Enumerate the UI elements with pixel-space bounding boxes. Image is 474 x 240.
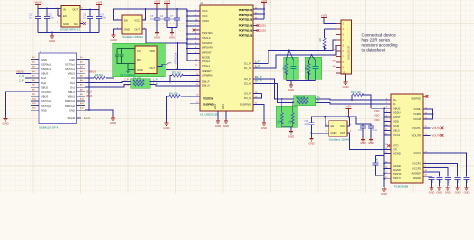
- svg-text:SH: SH: [332, 66, 335, 68]
- svg-text:/SSPND: /SSPND: [411, 97, 421, 101]
- svg-text:PCM2906B: PCM2906B: [394, 185, 408, 189]
- svg-text:VDDU: VDDU: [393, 111, 401, 115]
- wire header D minus: [312, 46, 342, 56]
- svg-text:CC: CC: [137, 49, 141, 53]
- svg-text:1k5: 1k5: [319, 37, 322, 42]
- svg-text:D3_N: D3_N: [244, 96, 251, 100]
- junction pullup D+: [351, 99, 353, 101]
- svg-text:GND: GND: [215, 124, 221, 128]
- svg-text:SSTXp1: SSTXp1: [65, 62, 76, 66]
- svg-text:GND: GND: [154, 36, 160, 40]
- resistor R12 1k5: [351, 90, 371, 108]
- svg-text:GND: GND: [2, 122, 8, 126]
- svg-text:SSTXn2: SSTXn2: [41, 99, 52, 103]
- svg-text:/RESET: /RESET: [202, 69, 212, 73]
- wire AGNDP to cap: [423, 172, 439, 177]
- svg-text:1M: 1M: [306, 67, 308, 70]
- svg-text:GND: GND: [288, 135, 294, 139]
- ground C12: [445, 186, 451, 195]
- oscillator X2: [329, 121, 351, 142]
- power flag VBUS: [34, 0, 42, 8]
- oscillator X1: [122, 15, 144, 39]
- svg-text:GND: GND: [308, 142, 314, 146]
- wire PCM left power bus: [384, 108, 391, 187]
- svg-text:VBUS: VBUS: [89, 69, 97, 73]
- resistor R8 pullup: [289, 29, 341, 50]
- wire 3V3 input rail: [38, 9, 99, 17]
- wire osc1 power loop: [114, 9, 188, 33]
- ground main IC 1: [215, 119, 221, 128]
- wire CC out right: [157, 64, 167, 66]
- svg-text:2_P: 2_P: [19, 79, 24, 83]
- wire VCONN to gnd: [6, 92, 32, 117]
- ground osc1: [110, 33, 116, 42]
- junction osc2 gnd: [311, 132, 313, 134]
- capacitor C7: [170, 9, 180, 28]
- wire VBUS left: [16, 72, 31, 74]
- svg-text:D2_N: D2_N: [244, 81, 251, 85]
- svg-text:100n: 100n: [170, 18, 176, 21]
- wire header stubs: [336, 24, 341, 74]
- no-connect pins right 2: [253, 29, 267, 33]
- svg-text:VOUTL: VOUTL: [412, 126, 421, 130]
- svg-text:R5 5k1: R5 5k1: [95, 73, 104, 77]
- wire DM_N from USB-C: [85, 85, 131, 88]
- net stub CC out: [167, 63, 171, 65]
- svg-text:GND: GND: [464, 191, 470, 195]
- wire pulldown gnd rail: [282, 127, 293, 130]
- junction XTAL1 branch: [177, 42, 179, 70]
- wire DM_P to IC: [150, 80, 201, 82]
- svg-text:VCCX: VCCX: [414, 151, 422, 155]
- ground C14: [464, 186, 470, 195]
- resistor box R1 R2 22R: [124, 76, 150, 88]
- svg-text:Earth: Earth: [84, 116, 91, 120]
- capacitor C3: [83, 14, 93, 33]
- svg-text:SCKI: SCKI: [393, 124, 400, 128]
- svg-text:OUT: OUT: [134, 27, 140, 31]
- svg-text:GND: GND: [124, 27, 130, 31]
- pin numbers USB-C left: [32, 57, 37, 110]
- wire D3 stubs: [253, 94, 262, 99]
- svg-text:D-: D-: [393, 102, 396, 106]
- capacitor C2: [44, 14, 55, 33]
- svg-text:D1_N: D1_N: [244, 66, 251, 70]
- svg-text:TESTA: TESTA: [393, 172, 402, 176]
- svg-text:VDD: VDD: [374, 118, 380, 122]
- capacitor CC 1: [115, 50, 119, 61]
- wire USB-C top gnd loop: [85, 60, 89, 111]
- no-connect pins right 1: [253, 24, 267, 28]
- ground USB-C right: [110, 116, 116, 125]
- pin numbers main IC right: [255, 7, 258, 104]
- svg-text:VCC: VCC: [134, 18, 140, 22]
- wire VCCX to cap: [423, 153, 467, 177]
- svg-text:SBU2: SBU2: [41, 85, 49, 89]
- svg-text:Shield: Shield: [68, 116, 76, 120]
- junction main bus: [186, 10, 188, 49]
- ground RREF: [163, 121, 169, 130]
- ground C15: [360, 138, 366, 146]
- net label VOUTL: [432, 126, 444, 130]
- svg-text:PORT0[1:0]: PORT0[1:0]: [239, 8, 253, 12]
- wire VBUS to PCM: [371, 107, 391, 109]
- svg-text:VBUS: VBUS: [393, 106, 401, 110]
- svg-text:VD33: VD33: [202, 19, 209, 23]
- wire D- to PCM: [316, 102, 392, 103]
- svg-text:SBU1: SBU1: [86, 92, 93, 94]
- resistor R10 pulldown: [288, 102, 294, 126]
- svg-text:GND: GND: [222, 104, 225, 110]
- ground main IC 2: [223, 119, 229, 128]
- capacitor C16 left of PCM: [368, 126, 378, 138]
- svg-text:VCC: VCC: [202, 9, 208, 13]
- power flag header: [321, 13, 341, 23]
- wire osc2 power rail: [312, 117, 364, 126]
- pin numbers regulator: [57, 8, 84, 24]
- svg-text:to datasheet: to datasheet: [362, 48, 386, 53]
- junction PCM bus: [383, 112, 385, 180]
- svg-text:+3V3: +3V3: [96, 0, 103, 4]
- capacitor XC2: [313, 61, 319, 81]
- highlight box crystal 1: [284, 57, 299, 79]
- ground CC internal: [126, 70, 130, 74]
- svg-text:WFDNT: WFDNT: [202, 50, 212, 54]
- capacitor C6: [160, 9, 170, 28]
- svg-text:LP5907MFX-3.3: LP5907MFX-3.3: [60, 28, 81, 32]
- svg-text:XTALCLK: XTALCLK: [173, 52, 177, 64]
- power flag VCC osc caps 2: [164, 0, 171, 9]
- svg-text:PORT1[1:0]: PORT1[1:0]: [239, 13, 253, 17]
- svg-text:VDD: VDD: [149, 49, 155, 53]
- svg-text:VCCP2: VCCP2: [412, 167, 421, 171]
- wire CC internal: [117, 49, 135, 70]
- wire osc2 EN: [325, 125, 329, 127]
- junction VBUS bus top: [383, 107, 385, 109]
- capacitor C8: [305, 117, 315, 137]
- svg-text:GND: GND: [360, 141, 366, 145]
- svg-text:+3V3: +3V3: [164, 0, 171, 4]
- svg-text:VBUS: VBUS: [16, 69, 24, 73]
- capacitor CC 2: [120, 50, 124, 61]
- net label VOUTR: [432, 134, 444, 138]
- wire osc2 GND: [312, 132, 329, 134]
- junction osc2 rail: [324, 116, 349, 118]
- USB-C top pin tick: [39, 51, 41, 53]
- no-connect PCM top right: [423, 95, 428, 98]
- svg-text:VBUS: VBUS: [41, 95, 49, 99]
- pin stubs USB-C left: [31, 60, 39, 111]
- junction pulldown P: [281, 98, 283, 100]
- highlight box pulldowns: [276, 106, 297, 127]
- svg-text:PORT2[1:0]: PORT2[1:0]: [239, 18, 253, 22]
- svg-text:OUT: OUT: [340, 131, 346, 135]
- svg-text:GND: GND: [41, 108, 47, 112]
- CC controller U4: [135, 46, 157, 74]
- svg-text:SUSPND: SUSPND: [240, 103, 251, 107]
- pin numbers osc1: [117, 18, 146, 29]
- svg-text:GND: GND: [137, 68, 143, 72]
- svg-text:GND: GND: [342, 85, 348, 89]
- svg-text:100n: 100n: [160, 18, 166, 21]
- wire main IC left bus: [187, 9, 200, 54]
- svg-text:OUT: OUT: [149, 66, 155, 70]
- wire VOUTR: [423, 134, 431, 136]
- svg-text:GND: GND: [110, 38, 116, 42]
- svg-text:GND: GND: [288, 88, 294, 92]
- svg-text:VDD: VDD: [374, 109, 380, 113]
- svg-text:GND: GND: [69, 58, 75, 62]
- power flag VCC osc caps 1: [154, 0, 161, 9]
- wire header D plus: [325, 40, 341, 50]
- svg-text:GND: GND: [110, 121, 116, 125]
- ground C10: [429, 186, 435, 195]
- junction crystal 1 apex: [288, 49, 290, 51]
- wire crystal 2 triangle: [309, 55, 316, 61]
- svg-text:GND: GND: [214, 104, 217, 110]
- svg-text:1_P: 1_P: [153, 77, 158, 81]
- no-connect main IC pin: [193, 29, 200, 32]
- svg-text:SSRXn2: SSRXn2: [65, 99, 76, 103]
- svg-text:GND: GND: [455, 191, 461, 195]
- resistor R9 pulldown: [278, 99, 284, 127]
- svg-text:MC: MC: [137, 58, 141, 62]
- svg-text:R3 1k5: R3 1k5: [172, 71, 181, 75]
- regulator U5: [58, 6, 83, 32]
- svg-text:D+: D+: [317, 95, 321, 99]
- svg-text:GND: GND: [331, 131, 337, 135]
- svg-text:AGND: AGND: [393, 164, 401, 168]
- svg-text:GND: GND: [69, 108, 75, 112]
- svg-text:GND: GND: [368, 141, 374, 145]
- svg-text:R12 1k5: R12 1k5: [351, 90, 361, 94]
- wire C6 C7 gnd merge: [167, 28, 177, 31]
- svg-text:NC: NC: [74, 22, 78, 26]
- ground PCM bus: [381, 187, 387, 196]
- capacitor C10: [429, 178, 435, 186]
- svg-text:+3V3: +3V3: [321, 13, 328, 17]
- power flag 3V3 out: [96, 0, 103, 9]
- svg-text:VBUS: VBUS: [68, 72, 76, 76]
- ground pulldowns: [288, 130, 294, 139]
- svg-text:VDD: VDD: [393, 120, 399, 124]
- wire CC with resistor R5: [85, 73, 114, 79]
- svg-text:GND: GND: [63, 22, 69, 26]
- svg-text:EN: EN: [331, 124, 335, 128]
- svg-text:LED1: LED1: [260, 25, 267, 28]
- svg-text:VBUS: VBUS: [41, 72, 49, 76]
- capacitor C13: [455, 178, 461, 186]
- svg-text:+3V3: +3V3: [154, 0, 161, 4]
- svg-text:AGNDP: AGNDP: [411, 172, 421, 176]
- wire crystal 1 triangle: [286, 50, 293, 60]
- wire regulator ground rail: [38, 32, 99, 34]
- svg-text:1_N: 1_N: [153, 81, 158, 85]
- note text: [362, 33, 399, 53]
- ground C11: [436, 186, 442, 195]
- svg-text:C15: C15: [358, 129, 363, 132]
- svg-text:100n: 100n: [101, 17, 107, 20]
- svg-text:D2_P: D2_P: [244, 77, 251, 81]
- ground C8: [308, 137, 314, 146]
- wire main IC bottom grounds: [218, 111, 226, 119]
- wire D2_P: [253, 79, 294, 99]
- svg-text:XSCLK: XSCLK: [202, 36, 211, 40]
- no-connect regulator NC pin: [83, 22, 86, 25]
- svg-text:SSRXn1: SSRXn1: [41, 67, 52, 71]
- svg-text:VCC1: VCC1: [393, 133, 401, 137]
- svg-text:DM_N: DM_N: [202, 84, 210, 88]
- svg-text:VBUS: VBUS: [68, 95, 76, 99]
- svg-text:DM_P: DM_P: [202, 80, 210, 84]
- capacitor C14: [464, 178, 470, 186]
- svg-text:D3_P: D3_P: [244, 92, 251, 96]
- ground C5: [154, 31, 160, 40]
- svg-text:OUT: OUT: [72, 8, 78, 12]
- svg-text:Dp2: Dp2: [41, 81, 46, 85]
- svg-text:Oscillator 30MHz: Oscillator 30MHz: [122, 35, 144, 39]
- ground SUSPND: [261, 121, 267, 130]
- power flag osc2: [346, 104, 352, 116]
- svg-text:SSRXp1: SSRXp1: [41, 62, 52, 66]
- ground C6 C7: [169, 31, 175, 40]
- svg-text:AGND: AGND: [393, 152, 401, 156]
- svg-text:XTI: XTI: [393, 148, 397, 152]
- svg-text:+5V: +5V: [346, 104, 351, 108]
- junction top right power: [263, 8, 265, 15]
- svg-text:HOST: HOST: [393, 115, 401, 119]
- svg-text:2_N: 2_N: [124, 83, 129, 87]
- svg-text:2_N: 2_N: [19, 74, 24, 78]
- resistor R7: [306, 61, 310, 81]
- svg-text:SH: SH: [332, 60, 335, 62]
- wire osc1 clock out: [142, 29, 187, 43]
- svg-text:VCC: VCC: [202, 14, 208, 18]
- pin numbers osc2: [326, 124, 352, 133]
- wire D+ to PCM: [316, 99, 392, 100]
- svg-text:XTAL1: XTAL1: [202, 64, 211, 68]
- svg-text:22p: 22p: [305, 122, 310, 126]
- svg-text:TESTI: TESTI: [393, 176, 401, 180]
- svg-text:VCOM: VCOM: [413, 117, 422, 121]
- wire VOUTL: [423, 127, 431, 129]
- wire Dn2: [25, 77, 31, 79]
- resistor R4 RREF: [167, 91, 201, 121]
- wire SUSPND stub left: [190, 103, 200, 105]
- pin numbers main IC left: [195, 9, 199, 104]
- ground crystal: [288, 83, 294, 92]
- junction crystal 2 apex: [311, 54, 313, 56]
- svg-text:VCC: VCC: [340, 124, 346, 128]
- no-connect XTO: [387, 144, 391, 147]
- svg-text:MINIUSB10P: MINIUSB10P: [348, 45, 351, 60]
- wire VCM bracket: [423, 109, 433, 119]
- pin numbers USB-C right: [80, 56, 85, 110]
- net labels header lower pins: [332, 49, 336, 68]
- svg-text:EN: EN: [124, 18, 128, 22]
- svg-text:D1_P: D1_P: [244, 61, 251, 65]
- svg-text:PORT5[1:0]: PORT5[1:0]: [239, 33, 253, 37]
- wire VCCP2 to cap: [423, 168, 448, 177]
- junction pulldown N: [292, 102, 294, 104]
- svg-text:GND: GND: [49, 39, 55, 43]
- junction gnd loop: [88, 109, 90, 111]
- wire D2_N: [253, 83, 294, 102]
- PCM2906 body: [391, 94, 423, 189]
- resistor R6: [284, 61, 288, 81]
- pin numbers PCM left: [385, 98, 388, 179]
- junction R3 to DM_P: [169, 81, 171, 83]
- wire DM_N to IC: [150, 85, 201, 86]
- power flag main IC: [261, 0, 268, 7]
- svg-text:VCONN: VCONN: [41, 90, 51, 94]
- wire header gnd: [345, 74, 347, 80]
- svg-text:IN: IN: [63, 8, 66, 12]
- svg-text:SSTXp2: SSTXp2: [41, 104, 52, 108]
- svg-text:Dp1: Dp1: [70, 81, 75, 85]
- svg-text:EN: EN: [63, 14, 67, 18]
- svg-text:VCMR: VCMR: [413, 112, 421, 116]
- svg-text:D-: D-: [317, 99, 320, 103]
- capacitor C4: [96, 14, 107, 33]
- svg-text:GND: GND: [429, 191, 435, 195]
- svg-text:VBUS: VBUS: [34, 0, 42, 4]
- svg-text:XTAL2: XTAL2: [202, 59, 211, 63]
- cap value labels bottom right: [432, 180, 469, 183]
- svg-text:GND: GND: [445, 191, 451, 195]
- svg-text:XTO: XTO: [393, 144, 398, 148]
- svg-text:D+: D+: [393, 98, 397, 102]
- svg-text:R11 22R: R11 22R: [296, 96, 306, 99]
- svg-text:SSTXn1: SSTXn1: [65, 67, 76, 71]
- svg-text:10u: 10u: [376, 157, 379, 162]
- resistor box 22R series: [294, 96, 316, 106]
- capacitor C15 left of PCM: [358, 124, 371, 138]
- svg-text:VOUTR: VOUTR: [432, 134, 442, 138]
- svg-text:Dn1: Dn1: [70, 85, 75, 89]
- svg-text:U1 USB2512B: U1 USB2512B: [200, 112, 218, 116]
- junction VCM: [432, 113, 434, 115]
- svg-text:CC: CC: [71, 76, 75, 80]
- svg-text:UPWRM: UPWRM: [202, 74, 213, 78]
- wire osc2 VCC: [347, 117, 349, 126]
- svg-text:VBUS: VBUS: [86, 96, 93, 98]
- svg-text:GND: GND: [41, 58, 47, 62]
- svg-text:MODE: MODE: [202, 55, 210, 59]
- svg-text:R4 12k: R4 12k: [169, 91, 178, 95]
- svg-text:100n: 100n: [49, 17, 55, 20]
- header connector P1: [341, 20, 352, 75]
- wire XTAL2 from bus: [187, 54, 200, 61]
- svg-text:VOUTR: VOUTR: [412, 133, 421, 137]
- svg-text:TESTEN: TESTEN: [203, 96, 213, 100]
- wire osc2 OUT to XTI: [347, 133, 391, 150]
- svg-text:DGND: DGND: [413, 176, 421, 180]
- svg-text:Oscillator 12MHz: Oscillator 12MHz: [329, 137, 351, 141]
- junction input rail: [46, 8, 91, 11]
- capacitor C12: [445, 178, 451, 186]
- svg-text:SBU1: SBU1: [68, 90, 76, 94]
- capacitor C5: [150, 9, 160, 31]
- svg-text:WFDATA: WFDATA: [202, 45, 213, 49]
- wire crystal ground rail: [286, 81, 315, 83]
- USB-C connector J1 body: [39, 53, 77, 129]
- capacitor C1: [29, 14, 41, 33]
- svg-text:C16: C16: [373, 129, 378, 132]
- capacitor C11: [436, 178, 442, 186]
- ground C13: [455, 186, 461, 195]
- svg-text:GND: GND: [436, 191, 442, 195]
